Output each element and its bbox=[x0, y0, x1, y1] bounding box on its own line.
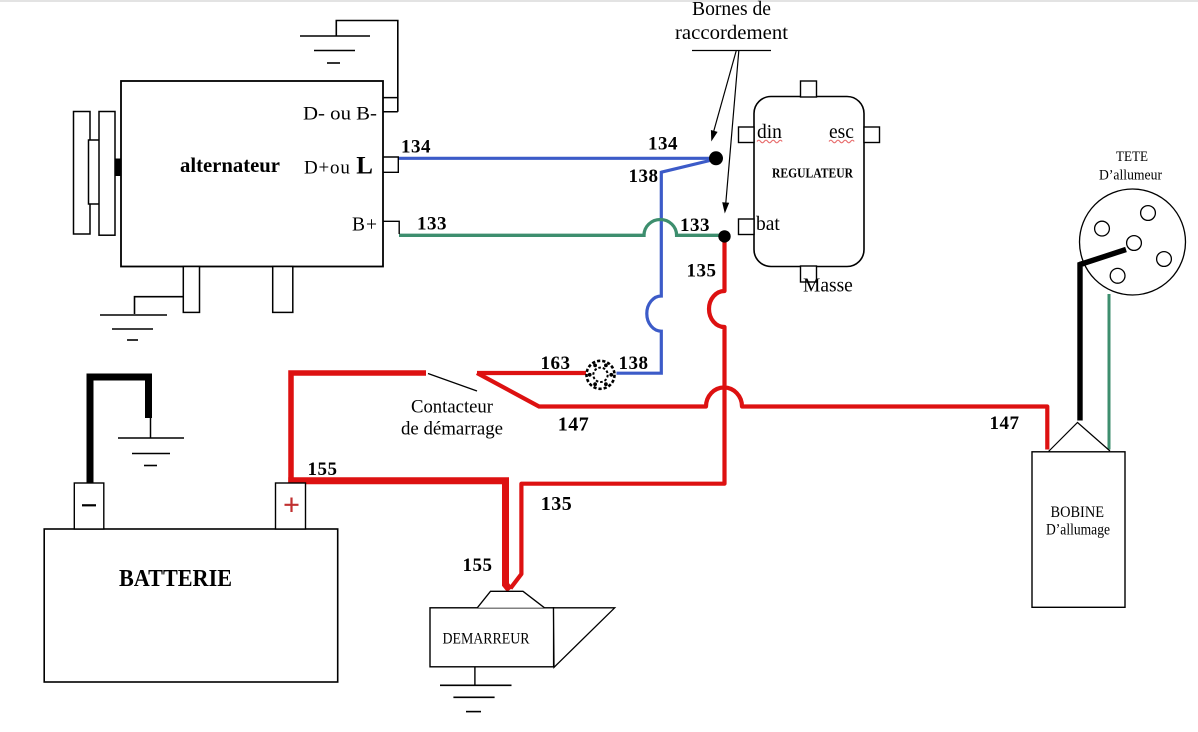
svg-text:BOBINE: BOBINE bbox=[1051, 504, 1105, 521]
junction dot 134 bbox=[709, 151, 723, 165]
rotor thick wire overlay bbox=[1080, 250, 1126, 265]
battery ground lead thin bbox=[150, 414, 152, 438]
bornes underline bbox=[692, 50, 771, 52]
bobine box bbox=[1032, 452, 1125, 608]
wire D- to top ground bbox=[336, 21, 398, 112]
alternator box bbox=[121, 81, 383, 267]
top window edge bbox=[0, 0, 1198, 2]
wire 135 red: from bat dot down, bump, to starter bbox=[511, 242, 725, 588]
svg-text:esc: esc bbox=[829, 122, 854, 143]
arrow 1 to dot 134 bbox=[714, 51, 737, 133]
ground G3 (battery) bbox=[118, 438, 184, 466]
svg-text:de démarrage: de démarrage bbox=[401, 419, 503, 440]
green wire: distributor to bobine bbox=[1108, 294, 1111, 450]
ground G1 (alternator top) bbox=[300, 36, 370, 63]
svg-text:147: 147 bbox=[990, 413, 1020, 434]
wire 155 red thick: battery + to starter bbox=[288, 481, 510, 590]
svg-text:135: 135 bbox=[541, 493, 573, 515]
svg-text:BATTERIE: BATTERIE bbox=[119, 565, 232, 592]
junction dot 133/135 (bat) bbox=[718, 230, 730, 242]
wire 147 red: contactor branch to bobine, hop over 135 bbox=[477, 373, 1047, 450]
terminal D+ notch bbox=[383, 157, 398, 172]
svg-text:133: 133 bbox=[417, 214, 447, 235]
svg-text:138: 138 bbox=[619, 353, 649, 374]
starter top trapezoid terminal bbox=[477, 591, 544, 608]
ground G2 (alternator bottom) bbox=[100, 315, 167, 340]
ground G4 (starter) bbox=[440, 685, 512, 711]
svg-text:138: 138 bbox=[629, 166, 659, 187]
regulator terminal din bbox=[739, 127, 755, 143]
svg-text:155: 155 bbox=[463, 555, 493, 576]
terminal B+ notch bbox=[383, 221, 399, 234]
connector circle 163/138 bbox=[587, 361, 615, 389]
svg-text:134: 134 bbox=[648, 134, 678, 155]
svg-text:D- ou B-: D- ou B- bbox=[303, 104, 377, 125]
svg-text:bat: bat bbox=[756, 214, 780, 235]
svg-text:D’allumeur: D’allumeur bbox=[1099, 168, 1162, 184]
regulator terminal top bbox=[801, 81, 817, 97]
regulator terminal esc bbox=[864, 127, 880, 143]
svg-text:D’allumage: D’allumage bbox=[1046, 522, 1110, 539]
pulley outer left rect bbox=[74, 112, 91, 235]
starter nose polygon bbox=[554, 608, 615, 668]
svg-text:134: 134 bbox=[401, 137, 431, 158]
alternator foot right bbox=[273, 267, 293, 313]
regulator box bbox=[754, 97, 864, 267]
tete circle bbox=[1080, 189, 1186, 295]
terminal D- notch bbox=[383, 98, 398, 112]
svg-text:147: 147 bbox=[558, 414, 590, 436]
svg-text:Bornes de: Bornes de bbox=[692, 0, 771, 20]
svg-text:135: 135 bbox=[687, 261, 717, 282]
bobine top chevron bbox=[1049, 423, 1111, 452]
svg-text:B+: B+ bbox=[352, 215, 378, 236]
arrow 2 to dot bat bbox=[726, 51, 739, 203]
plug towers bbox=[1095, 221, 1110, 236]
svg-text:REGULATEUR: REGULATEUR bbox=[772, 167, 854, 182]
svg-text:Contacteur: Contacteur bbox=[411, 397, 494, 418]
svg-text:163: 163 bbox=[541, 353, 571, 374]
wire 155 red thick: battery + up to contactor bbox=[291, 373, 426, 484]
din squiggle bbox=[757, 140, 782, 143]
regulator terminal bat bbox=[739, 219, 755, 235]
svg-text:133: 133 bbox=[680, 215, 710, 236]
regulator terminal masse bbox=[801, 266, 817, 282]
battery minus black wire to ground bbox=[90, 377, 149, 484]
svg-text:Masse: Masse bbox=[803, 276, 853, 297]
battery box bbox=[44, 529, 338, 682]
starter ground lead bbox=[474, 667, 476, 686]
wire 163 red: contactor to connector bbox=[477, 371, 586, 375]
pulley shaft black bbox=[115, 159, 121, 177]
pulley outer right rect bbox=[99, 112, 115, 236]
battery post minus bbox=[74, 483, 104, 529]
battery post plus bbox=[276, 483, 306, 529]
starter box bbox=[430, 608, 554, 667]
svg-text:155: 155 bbox=[308, 459, 338, 480]
svg-text:TETE: TETE bbox=[1116, 149, 1148, 165]
alternator ground wire bottom bbox=[135, 297, 184, 314]
svg-text:D+ou L: D+ou L bbox=[304, 153, 374, 180]
wire 134 blue: alternator D+ to terminal dot bbox=[399, 157, 714, 160]
svg-text:alternateur: alternateur bbox=[180, 153, 280, 177]
pulley middle small rect bbox=[89, 140, 101, 204]
black rotor wire: distributor to bobine bbox=[1080, 250, 1126, 421]
wire 133 green: alternator B+ to bat dot, hop over blue bbox=[399, 220, 721, 236]
esc squiggle bbox=[829, 140, 854, 143]
svg-text:din: din bbox=[757, 122, 782, 143]
plus sign bbox=[285, 498, 299, 513]
alternator foot left bbox=[183, 267, 199, 313]
wire 138 blue vertical with hop, to connector bbox=[617, 171, 662, 373]
svg-text:raccordement: raccordement bbox=[675, 23, 789, 44]
minus sign bbox=[82, 504, 96, 506]
wire 138 blue diagonal from dot down-left bbox=[661, 160, 714, 173]
contactor blade (thin black line) bbox=[428, 374, 477, 392]
svg-text:DEMARREUR: DEMARREUR bbox=[443, 631, 531, 648]
